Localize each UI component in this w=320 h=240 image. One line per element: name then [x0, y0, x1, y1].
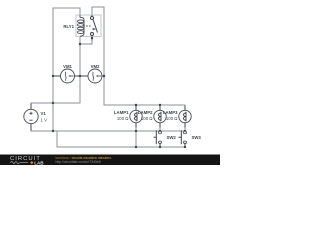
wire V1 minus lead and mid bus	[31, 124, 185, 131]
svg-text:LAMP3: LAMP3	[163, 110, 178, 115]
wire switch bottom jog	[80, 37, 92, 45]
junction VM row / coil rail	[79, 75, 81, 77]
wire jog to bottom bus	[57, 131, 185, 147]
svg-text:LAMP2: LAMP2	[138, 110, 153, 115]
wire lamp3 branch lower	[184, 143, 186, 147]
svg-text:RLY1: RLY1	[63, 24, 74, 29]
wire top-left horizontal (coil top feed)	[53, 7, 80, 9]
svg-text:VM2: VM2	[91, 64, 100, 69]
footer banner	[0, 155, 220, 166]
svg-text:LAMP1: LAMP1	[114, 110, 129, 115]
voltage source V1	[24, 109, 47, 123]
relay actuation dashed link	[83, 26, 96, 30]
voltmeter VM2	[88, 64, 102, 83]
svg-text:100 Ω: 100 Ω	[141, 116, 153, 121]
relay box	[76, 15, 101, 37]
junction coil bottom / switch bottom	[79, 43, 81, 45]
wire V1 plus lead	[31, 103, 80, 109]
wire coil bottom rail x=80	[79, 37, 81, 104]
junction at VM row left rail	[52, 75, 54, 77]
junction VM row / right rail	[103, 75, 105, 77]
junction SW3 / bottom bus	[184, 146, 186, 148]
junction lamp2-SW2 / mid bus	[159, 130, 161, 132]
lamp LAMP3	[163, 110, 191, 123]
component pins (dark)	[31, 37, 185, 148]
wire coil top pin drop	[79, 8, 81, 15]
wire lamp1 branch	[135, 105, 137, 147]
svg-text:V1: V1	[41, 111, 47, 116]
switch SW3	[179, 130, 202, 144]
svg-text:VM1: VM1	[63, 64, 72, 69]
V1 pins	[30, 104, 32, 130]
wire lamp2 branch lower	[159, 143, 161, 147]
wire switch-top loop to right rail	[92, 7, 185, 105]
lamp LAMP1	[114, 110, 142, 123]
wire lamp3 branch upper	[184, 105, 186, 132]
relay switch contact	[91, 15, 98, 37]
svg-text:http://circuitlab.com/c/r7345b: http://circuitlab.com/c/r7345b5	[56, 160, 101, 164]
svg-text:100 Ω: 100 Ω	[166, 116, 178, 121]
VM row pins	[53, 75, 104, 77]
lamp pins	[135, 106, 137, 128]
wire left rail x=53	[52, 8, 54, 131]
switch SW2	[154, 130, 177, 144]
svg-text:100 Ω: 100 Ω	[117, 116, 129, 121]
junction lamp1 / mid bus	[135, 130, 137, 132]
voltmeter VM1	[61, 64, 75, 83]
junction V1 plus wire / left rail	[52, 102, 54, 104]
junction SW2 / bottom bus	[159, 146, 161, 148]
junction lamp1 / bottom bus	[135, 146, 137, 148]
wire lamp2 branch upper	[159, 105, 161, 132]
svg-text:1 V: 1 V	[41, 117, 48, 122]
relay coil	[78, 15, 85, 36]
switch pins	[160, 144, 185, 147]
svg-text:SW2: SW2	[167, 135, 177, 140]
junction relay switch bottom pin	[91, 37, 93, 39]
relay switch bottom pin	[91, 37, 93, 41]
junction left rail / mid bus	[52, 130, 54, 132]
lamp LAMP2	[138, 110, 166, 123]
junction lamp2 top / lamp bus	[159, 104, 161, 106]
relay RLY1	[63, 15, 101, 37]
junction lamp3-SW3 / mid bus	[184, 130, 186, 132]
junction lamp1 top / lamp bus	[135, 104, 137, 106]
svg-text:LAB: LAB	[34, 161, 44, 165]
wire voltmeter row	[53, 75, 104, 77]
svg-text:SW3: SW3	[192, 135, 202, 140]
